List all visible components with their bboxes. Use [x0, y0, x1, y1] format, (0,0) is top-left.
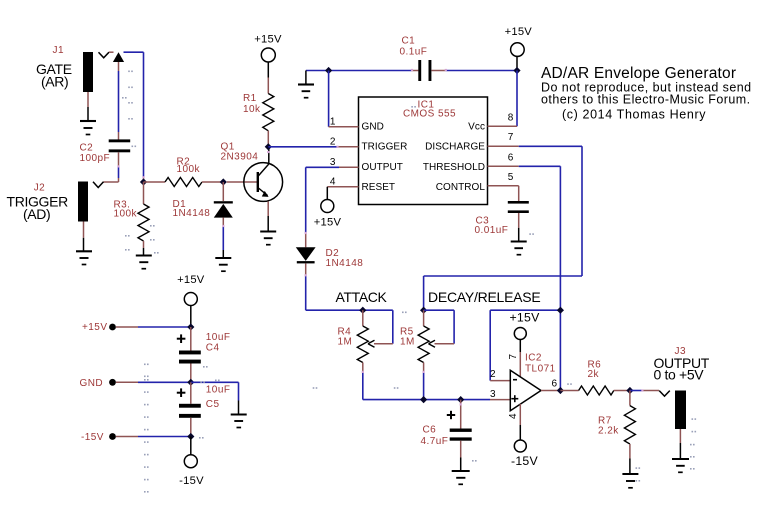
title text block — [541, 65, 752, 122]
svg-text:10k: 10k — [243, 104, 261, 115]
svg-text:(AR): (AR) — [41, 74, 68, 90]
svg-text:-15V: -15V — [179, 475, 204, 487]
wire pin 3 OUTPUT to D2 — [306, 167, 339, 247]
node R5 top — [420, 307, 427, 314]
ground under R3 — [136, 248, 152, 269]
svg-text:1M: 1M — [400, 337, 415, 348]
svg-text:ATTACK: ATTACK — [336, 289, 388, 305]
svg-text:4.7uF: 4.7uF — [421, 436, 449, 447]
wire junction down to pin 8 — [516, 71, 518, 127]
wire node to J3 — [630, 390, 659, 392]
normalling arrow — [113, 52, 124, 62]
pin 4 stub — [327, 177, 358, 188]
node R4 top — [359, 307, 366, 314]
svg-text:DECAY/RELEASE: DECAY/RELEASE — [428, 289, 540, 305]
wire bottom rail to op-amp + input — [363, 399, 511, 401]
R5 wiper loop wire — [435, 310, 455, 344]
svg-text:6: 6 — [508, 152, 514, 163]
wire top rail down to node A — [143, 52, 145, 182]
svg-text:C6: C6 — [423, 425, 437, 436]
capacitor C2 100pF — [80, 139, 131, 164]
svg-text:1: 1 — [330, 116, 336, 127]
svg-text:2: 2 — [330, 136, 336, 147]
svg-text:4: 4 — [330, 177, 336, 188]
svg-text:+15V: +15V — [82, 322, 107, 333]
wire pin2 branch to op-amp inverting input — [490, 310, 560, 380]
svg-text:+15V: +15V — [254, 34, 282, 46]
pin 7 stub — [488, 132, 519, 146]
ground under J3 — [672, 429, 689, 472]
potentiometer R4 1M — [338, 310, 369, 399]
resistor R2 100k — [144, 157, 224, 187]
power +15V supply (op-amp pin 7) — [509, 311, 540, 378]
ground at GND rail — [231, 415, 247, 428]
svg-text:C1: C1 — [402, 36, 416, 47]
svg-text:TL071: TL071 — [525, 364, 556, 375]
svg-text:8: 8 — [508, 112, 514, 123]
svg-text:J2: J2 — [34, 182, 45, 193]
svg-text:-15V: -15V — [511, 454, 539, 468]
capacitor C1 0.1uF — [400, 36, 518, 82]
op-amp timer IC1 CMOS 555 box — [359, 97, 488, 205]
resistor R1 10k — [243, 93, 274, 147]
svg-text:0 to +5V: 0 to +5V — [654, 367, 705, 383]
svg-text:R1: R1 — [243, 93, 257, 104]
svg-text:5: 5 — [508, 172, 514, 183]
diode D1 1N4148 — [173, 182, 233, 250]
pin 2 stub — [330, 136, 359, 147]
svg-text:C5: C5 — [206, 399, 220, 410]
svg-text:2N3904: 2N3904 — [221, 151, 259, 162]
node C6 top — [457, 396, 464, 403]
svg-text:2.2k: 2.2k — [598, 426, 619, 437]
J2 switch hook — [93, 182, 104, 188]
wire pin 7 DISCHARGE route — [424, 146, 582, 310]
pin 1 stub — [329, 116, 359, 127]
power -15V supply (op-amp pin 4) — [511, 404, 539, 468]
node +15V rail junction — [187, 323, 194, 330]
wire op-amp output — [541, 390, 560, 392]
R5 wiper arrow — [429, 340, 436, 347]
node A junction — [140, 178, 147, 185]
-15V rail terminal — [81, 432, 191, 443]
svg-text:1N4148: 1N4148 — [173, 208, 211, 219]
svg-text:2k: 2k — [588, 369, 600, 380]
svg-text:THRESHOLD: THRESHOLD — [423, 162, 485, 173]
svg-text:7: 7 — [508, 354, 519, 360]
diode D2 1N4148 — [296, 247, 363, 275]
ground under J2 — [76, 222, 92, 265]
jack J3 OUTPUT — [654, 346, 710, 429]
node Vcc rail junction — [513, 67, 520, 74]
svg-text:TRIGGER: TRIGGER — [362, 142, 408, 153]
capacitor C3 0.01uF — [475, 186, 529, 241]
svg-text:C4: C4 — [206, 342, 220, 353]
svg-text:AD/AR Envelope Generator: AD/AR Envelope Generator — [541, 65, 736, 82]
resistor R7 2.2k — [598, 391, 635, 474]
svg-text:1N4148: 1N4148 — [326, 258, 364, 269]
jack J1 GATE (AR) — [36, 45, 93, 92]
ground under Q1 emitter — [260, 232, 276, 245]
svg-text:7: 7 — [508, 132, 514, 143]
svg-text:0.01uF: 0.01uF — [475, 225, 509, 236]
wire node to 555 pin 2 — [268, 146, 337, 148]
wire pin 6 THRESHOLD route — [519, 166, 561, 390]
svg-text:CONTROL: CONTROL — [436, 182, 486, 193]
svg-text:GND: GND — [80, 378, 104, 389]
power +15V supply (Vcc rail) — [505, 26, 533, 71]
svg-text:10uF: 10uF — [206, 332, 231, 343]
svg-text:IC2: IC2 — [525, 353, 542, 364]
resistor R6 2k — [560, 360, 630, 396]
R4 wiper loop wire — [374, 310, 393, 344]
svg-text:OUTPUT: OUTPUT — [362, 162, 403, 173]
svg-text:10uF: 10uF — [206, 385, 231, 396]
svg-text:C2: C2 — [80, 143, 94, 154]
pin 6 stub — [488, 152, 519, 166]
capacitor C6 4.7uF — [421, 400, 472, 471]
svg-text:others to this Electro-Music F: others to this Electro-Music Forum. — [541, 93, 751, 107]
power +15V supply (RESET pin 4) — [314, 187, 342, 229]
svg-text:(c) 2014 Thomas Henry: (c) 2014 Thomas Henry — [562, 108, 706, 122]
transistor Q1 2N3904 — [221, 141, 283, 201]
svg-text:100k: 100k — [114, 209, 138, 220]
svg-text:+15V: +15V — [505, 26, 533, 38]
node op-amp output — [557, 387, 564, 394]
ground under R7 — [622, 474, 638, 488]
svg-text:(AD): (AD) — [23, 206, 50, 222]
svg-text:+15V: +15V — [314, 217, 342, 229]
svg-text:3: 3 — [330, 157, 336, 168]
ground under D1 — [215, 250, 231, 271]
J3 switch hook — [659, 391, 670, 397]
wire arrow to C2 top — [118, 62, 120, 140]
power -15V supply (bypass rail bottom) — [179, 437, 204, 488]
node B junction — [220, 178, 227, 185]
wire top rail to C1 and grounds — [306, 71, 412, 85]
svg-text:100k: 100k — [177, 164, 201, 175]
GND rail terminal — [80, 378, 191, 389]
wire arrow to corner — [124, 51, 144, 53]
svg-text:DISCHARGE: DISCHARGE — [425, 142, 485, 153]
ground at 555 top-left — [298, 85, 314, 98]
+15V rail terminal — [82, 322, 191, 333]
jack J2 TRIGGER (AD) — [7, 182, 89, 223]
svg-text:1M: 1M — [338, 337, 353, 348]
pin 5 stub — [488, 172, 519, 186]
svg-text:RESET: RESET — [362, 182, 396, 193]
node R1/Q1/pin2 junction — [265, 143, 272, 150]
svg-text:2: 2 — [490, 369, 496, 380]
pin 8 stub — [488, 112, 518, 126]
resistor R3 100k — [114, 182, 150, 248]
ground under J1 — [80, 92, 96, 135]
node R5 bottom — [420, 396, 427, 403]
svg-text:GND: GND — [362, 121, 384, 132]
pin 3 stub — [330, 157, 359, 168]
op-amp IC2 TL071 — [510, 353, 555, 411]
R4 wiper arrow — [368, 340, 375, 347]
svg-text:+15V: +15V — [177, 274, 205, 286]
power +15V supply (R1 top) — [254, 34, 282, 94]
capacitor C4 10uF — [177, 327, 231, 382]
wire D2 to ATTACK node — [306, 276, 393, 311]
wire Q1 emitter to ground — [267, 201, 269, 231]
node GND rail junction — [325, 67, 332, 74]
svg-text:6: 6 — [552, 378, 558, 389]
capacitor C5 10uF — [177, 382, 231, 436]
node THRESHOLD branch junction — [557, 307, 564, 314]
node R6/R7/J3 junction — [626, 387, 633, 394]
J1 switch hook — [99, 52, 110, 58]
svg-text:100pF: 100pF — [80, 153, 111, 164]
svg-text:-15V: -15V — [81, 432, 104, 443]
wire junction down to pin 1 — [328, 71, 330, 127]
power +15V supply (bypass rail top) — [177, 274, 205, 327]
svg-text:3: 3 — [490, 389, 496, 400]
wire C2 bottom to J2 tip — [104, 152, 119, 182]
svg-text:0.1uF: 0.1uF — [400, 47, 428, 58]
wire J1 tip to arrow — [109, 51, 114, 53]
svg-text:4: 4 — [508, 413, 519, 419]
potentiometer R5 1M — [400, 310, 454, 399]
wire GND junction to ground — [191, 382, 239, 414]
ground under C6 — [452, 471, 470, 484]
ground under C3 — [511, 242, 527, 255]
svg-text:CMOS 555: CMOS 555 — [403, 109, 456, 120]
svg-text:+15V: +15V — [509, 311, 540, 325]
node -15V rail junction — [187, 433, 194, 440]
svg-text:J1: J1 — [53, 45, 64, 56]
svg-text:Vcc: Vcc — [468, 121, 485, 132]
node GND rail junction — [187, 379, 194, 386]
